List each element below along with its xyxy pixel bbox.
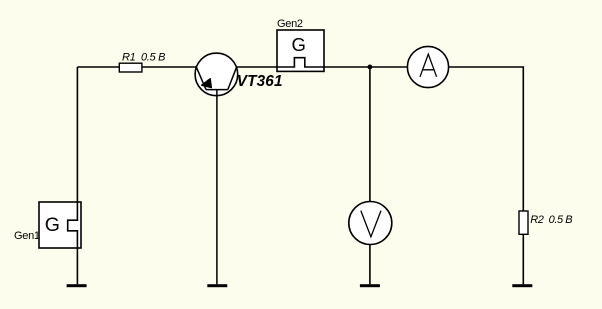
svg-text:Gen1: Gen1 [14, 230, 40, 242]
svg-text:Gen2: Gen2 [277, 18, 303, 30]
svg-text:G: G [45, 214, 60, 236]
svg-text:VT361: VT361 [237, 73, 283, 90]
svg-text:R2 0.5 В: R2 0.5 В [530, 214, 572, 226]
svg-text:G: G [292, 34, 306, 55]
svg-text:R1 0.5 В: R1 0.5 В [122, 52, 165, 64]
